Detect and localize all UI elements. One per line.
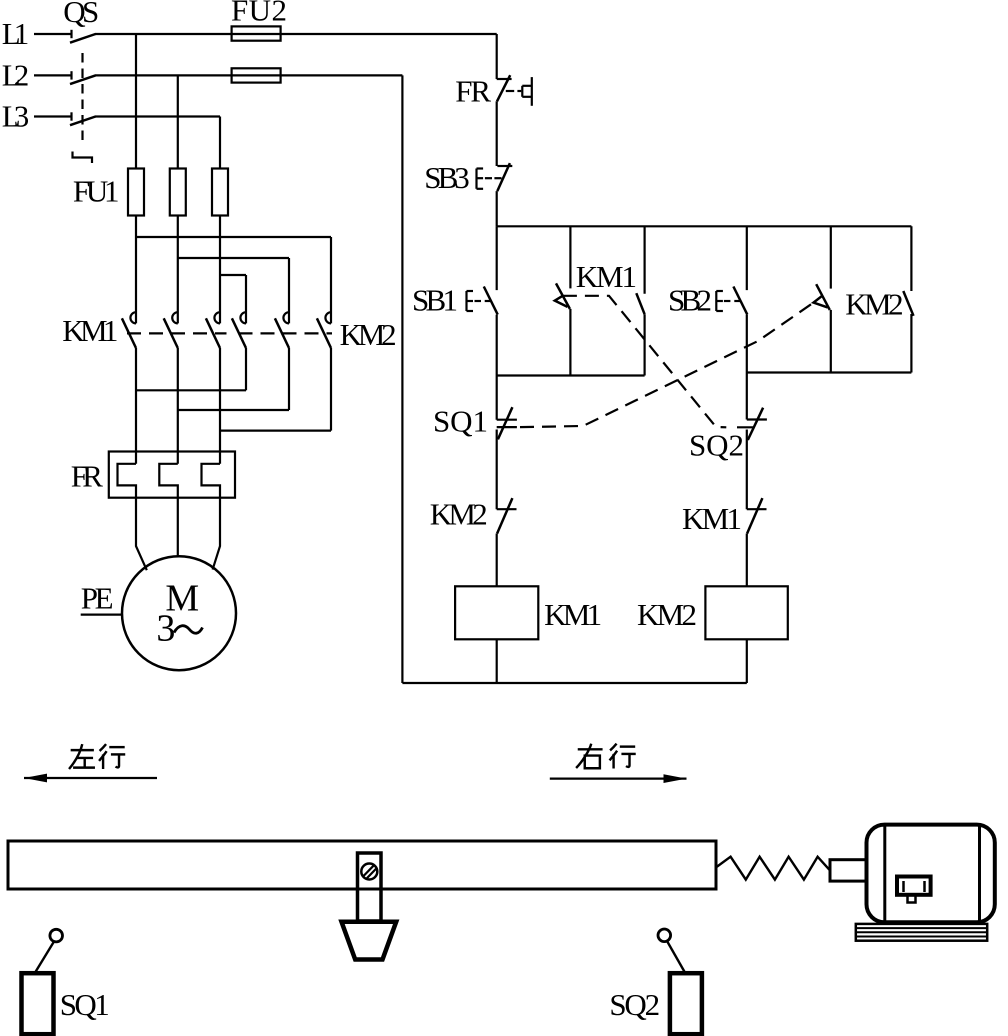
svg-text:KM2: KM2: [340, 317, 397, 352]
svg-text:SQ2: SQ2: [689, 428, 744, 463]
svg-text:KM2: KM2: [430, 496, 488, 531]
svg-text:FR: FR: [455, 74, 491, 109]
svg-text:KM1: KM1: [576, 259, 637, 294]
svg-text:L1: L1: [2, 16, 29, 51]
svg-text:KM2: KM2: [845, 287, 903, 322]
svg-text:L3: L3: [2, 99, 29, 134]
svg-text:PE: PE: [81, 581, 114, 616]
svg-text:QS: QS: [63, 0, 99, 29]
svg-text:L2: L2: [2, 58, 29, 93]
svg-text:SB1: SB1: [412, 283, 458, 318]
svg-text:SB3: SB3: [424, 160, 470, 195]
svg-text:FU2: FU2: [231, 0, 287, 28]
svg-text:3: 3: [156, 608, 175, 650]
svg-text:SQ1: SQ1: [433, 404, 488, 439]
svg-text:FU1: FU1: [73, 173, 120, 208]
svg-text:KM1: KM1: [682, 501, 742, 536]
svg-text:FR: FR: [71, 458, 104, 493]
svg-text:KM1: KM1: [62, 313, 118, 348]
svg-text:KM1: KM1: [544, 597, 602, 632]
svg-text:KM2: KM2: [637, 597, 697, 632]
svg-text:SB2: SB2: [668, 283, 712, 318]
svg-text:SQ2: SQ2: [609, 987, 660, 1022]
svg-text:SQ1: SQ1: [60, 987, 110, 1022]
